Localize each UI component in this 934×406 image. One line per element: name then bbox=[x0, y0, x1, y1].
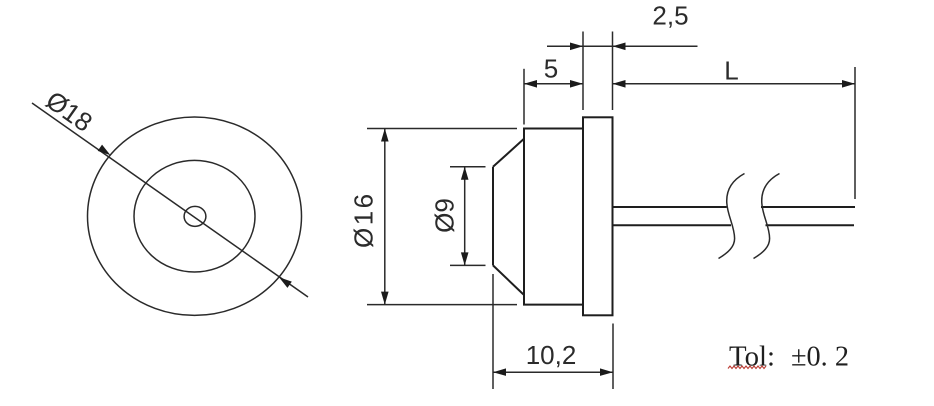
spellcheck squiggle under Tol bbox=[728, 366, 766, 369]
Ø9 extension line bottom bbox=[450, 264, 486, 266]
10.2 extension line left bbox=[492, 274, 494, 389]
10.2 extension line right bbox=[612, 324, 614, 390]
Ø18 diameter dimension line bbox=[32, 103, 308, 297]
Ø16 extension line bottom bbox=[367, 304, 517, 306]
10.2 arrow right bbox=[600, 368, 613, 376]
svg-text:±0. 2: ±0. 2 bbox=[791, 342, 849, 373]
Ø16 arrow up bbox=[381, 129, 389, 142]
side view body bottom edge bbox=[523, 304, 583, 306]
front view middle circle bbox=[134, 160, 255, 272]
svg-text:Ø16: Ø16 bbox=[349, 191, 379, 248]
5 arrow left bbox=[524, 80, 537, 88]
side view taper junction edge bbox=[523, 129, 525, 305]
10.2 arrow left bbox=[493, 368, 506, 376]
side view front face bbox=[492, 167, 494, 266]
svg-text:Ø9: Ø9 bbox=[430, 198, 460, 233]
Ø9 arrow down bbox=[461, 252, 469, 265]
L arrow right bbox=[842, 80, 855, 88]
side view taper bottom edge bbox=[493, 265, 524, 294]
2.5 arrow pointing left bbox=[613, 43, 626, 51]
side view body top edge bbox=[523, 128, 583, 130]
svg-text:5: 5 bbox=[544, 54, 558, 84]
Ø18 arrow upper bbox=[98, 145, 113, 159]
break curve left bbox=[719, 174, 745, 259]
5 extension line bbox=[523, 69, 525, 125]
Ø18 arrow lower bbox=[277, 274, 292, 288]
L extension line right bbox=[854, 67, 856, 199]
L dimension line bbox=[613, 83, 856, 85]
5 arrow right bbox=[570, 80, 583, 88]
Ø16 dimension line bbox=[384, 129, 386, 305]
2.5 dimension line bbox=[547, 45, 698, 47]
front view center hole bbox=[184, 206, 206, 226]
lead wire top right segment bbox=[761, 206, 855, 208]
front view outer circle Ø18 bbox=[88, 117, 302, 315]
2.5 extension line right bbox=[612, 32, 614, 111]
lead wire top left segment bbox=[613, 206, 727, 208]
svg-text:2,5: 2,5 bbox=[652, 0, 688, 30]
Ø9 arrow up bbox=[461, 167, 469, 180]
2.5 arrow pointing right bbox=[570, 43, 583, 51]
side view taper top edge bbox=[493, 139, 524, 167]
svg-text:10,2: 10,2 bbox=[526, 340, 577, 370]
Ø9 extension line top bbox=[450, 166, 486, 168]
Ø16 extension line top bbox=[367, 128, 517, 130]
2.5 extension line left bbox=[582, 32, 584, 111]
flange outline bbox=[583, 117, 613, 315]
Ø9 dimension line bbox=[464, 167, 466, 266]
10.2 dimension line bbox=[493, 371, 613, 373]
break curve right bbox=[754, 174, 780, 259]
lead wire bottom right segment bbox=[766, 224, 855, 226]
lead wire bottom left segment bbox=[613, 224, 732, 226]
5 dimension line bbox=[524, 83, 583, 85]
L arrow left bbox=[613, 80, 626, 88]
svg-text:L: L bbox=[724, 56, 738, 86]
Ø16 arrow down bbox=[381, 292, 389, 305]
